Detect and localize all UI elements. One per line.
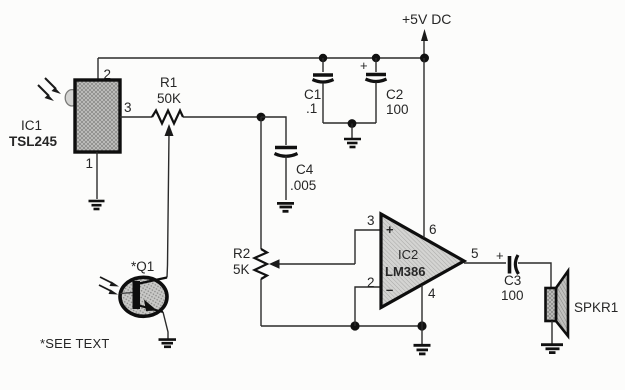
svg-text:100: 100 <box>501 288 524 303</box>
node +5V junction <box>420 54 429 63</box>
op-amp IC2 LM386 <box>381 214 464 308</box>
light arrows into IC1 <box>38 78 61 101</box>
svg-text:TSL245: TSL245 <box>9 134 58 149</box>
svg-text:5: 5 <box>471 246 479 261</box>
speaker SPKR1 <box>546 271 569 336</box>
svg-text:6: 6 <box>429 222 437 237</box>
wire bottom rail <box>261 325 422 327</box>
+5V DC supply arrow <box>421 29 428 58</box>
wire pin5 to C3 <box>464 262 506 264</box>
svg-text:C2: C2 <box>386 87 403 102</box>
wire Q1 emitter to ground <box>163 312 168 339</box>
svg-text:+: + <box>386 222 394 237</box>
ground C4 <box>277 203 294 211</box>
svg-text:3: 3 <box>124 100 132 115</box>
wire node A to C4 <box>261 117 286 145</box>
svg-text:R2: R2 <box>233 246 250 261</box>
svg-text:*Q1: *Q1 <box>131 259 154 274</box>
R2 wiper arrow <box>269 259 355 268</box>
svg-text:C3: C3 <box>504 273 521 288</box>
node pin2 rail junction <box>350 321 359 330</box>
ground IC1 <box>89 201 105 209</box>
svg-text:1: 1 <box>86 156 94 171</box>
svg-text:50K: 50K <box>157 91 181 106</box>
svg-text:+: + <box>496 248 504 263</box>
wire op-amp pin2 to rail <box>355 287 381 326</box>
node C1C2 ground junction <box>348 119 357 128</box>
wire pin6 to +5V rail <box>423 58 425 238</box>
ground SPKR1 <box>541 345 563 353</box>
wire IC1 pin1 to ground <box>96 152 98 199</box>
wire R1 wiper arrow down to Q1 collector <box>165 124 174 278</box>
wire wiper to op-amp pin3 <box>355 230 381 264</box>
node C1 top junction <box>319 54 327 62</box>
svg-text:5K: 5K <box>233 262 250 277</box>
svg-text:.1: .1 <box>306 101 317 116</box>
svg-text:.005: .005 <box>290 178 316 193</box>
wire R1 to node A <box>183 116 261 118</box>
wire SPKR1 to ground <box>551 321 553 344</box>
wire IC1 pin3 to R1 <box>120 116 152 118</box>
photo IC IC1 TSL245 <box>65 80 120 152</box>
svg-text:4: 4 <box>428 286 436 301</box>
wire junction to ground <box>351 124 353 139</box>
transistor Q1 <box>120 277 167 316</box>
wire IC1 pin2 to rail <box>97 58 99 80</box>
svg-text:–: – <box>386 282 393 297</box>
wire pin4 to rail <box>421 285 423 344</box>
node A junction <box>257 113 266 122</box>
resistor R1 <box>152 111 183 124</box>
svg-text:LM386: LM386 <box>385 264 425 279</box>
svg-text:IC1: IC1 <box>21 118 42 133</box>
svg-text:*SEE TEXT: *SEE TEXT <box>40 336 109 351</box>
svg-text:C1: C1 <box>304 87 321 102</box>
node pin4 rail junction <box>417 321 426 330</box>
capacitor C1 <box>313 58 334 123</box>
light arrows into Q1 <box>99 277 119 295</box>
wire R2 bottom to rail <box>260 279 262 326</box>
wire node A down to R2 <box>260 117 262 249</box>
svg-text:SPKR1: SPKR1 <box>574 300 618 315</box>
capacitor C3 <box>510 255 519 274</box>
ground C1C2 <box>344 139 361 147</box>
wire C1 C2 bottom join <box>323 122 376 124</box>
wire C3 to SPKR1 <box>518 263 551 288</box>
svg-text:+: + <box>360 58 368 73</box>
svg-text:+5V DC: +5V DC <box>402 11 451 27</box>
wire top +5V rail <box>98 57 424 59</box>
svg-text:100: 100 <box>386 102 409 117</box>
resistor R2 <box>255 249 268 279</box>
svg-text:3: 3 <box>367 213 375 228</box>
svg-text:2: 2 <box>367 275 375 290</box>
svg-text:IC2: IC2 <box>398 247 418 262</box>
capacitor C4 <box>275 148 298 201</box>
capacitor C2 <box>366 58 387 123</box>
svg-text:C4: C4 <box>296 162 314 177</box>
svg-text:R1: R1 <box>160 75 177 90</box>
node C2 top junction <box>372 54 380 62</box>
ground Q1 <box>159 340 177 347</box>
ground IC2 <box>414 345 431 354</box>
